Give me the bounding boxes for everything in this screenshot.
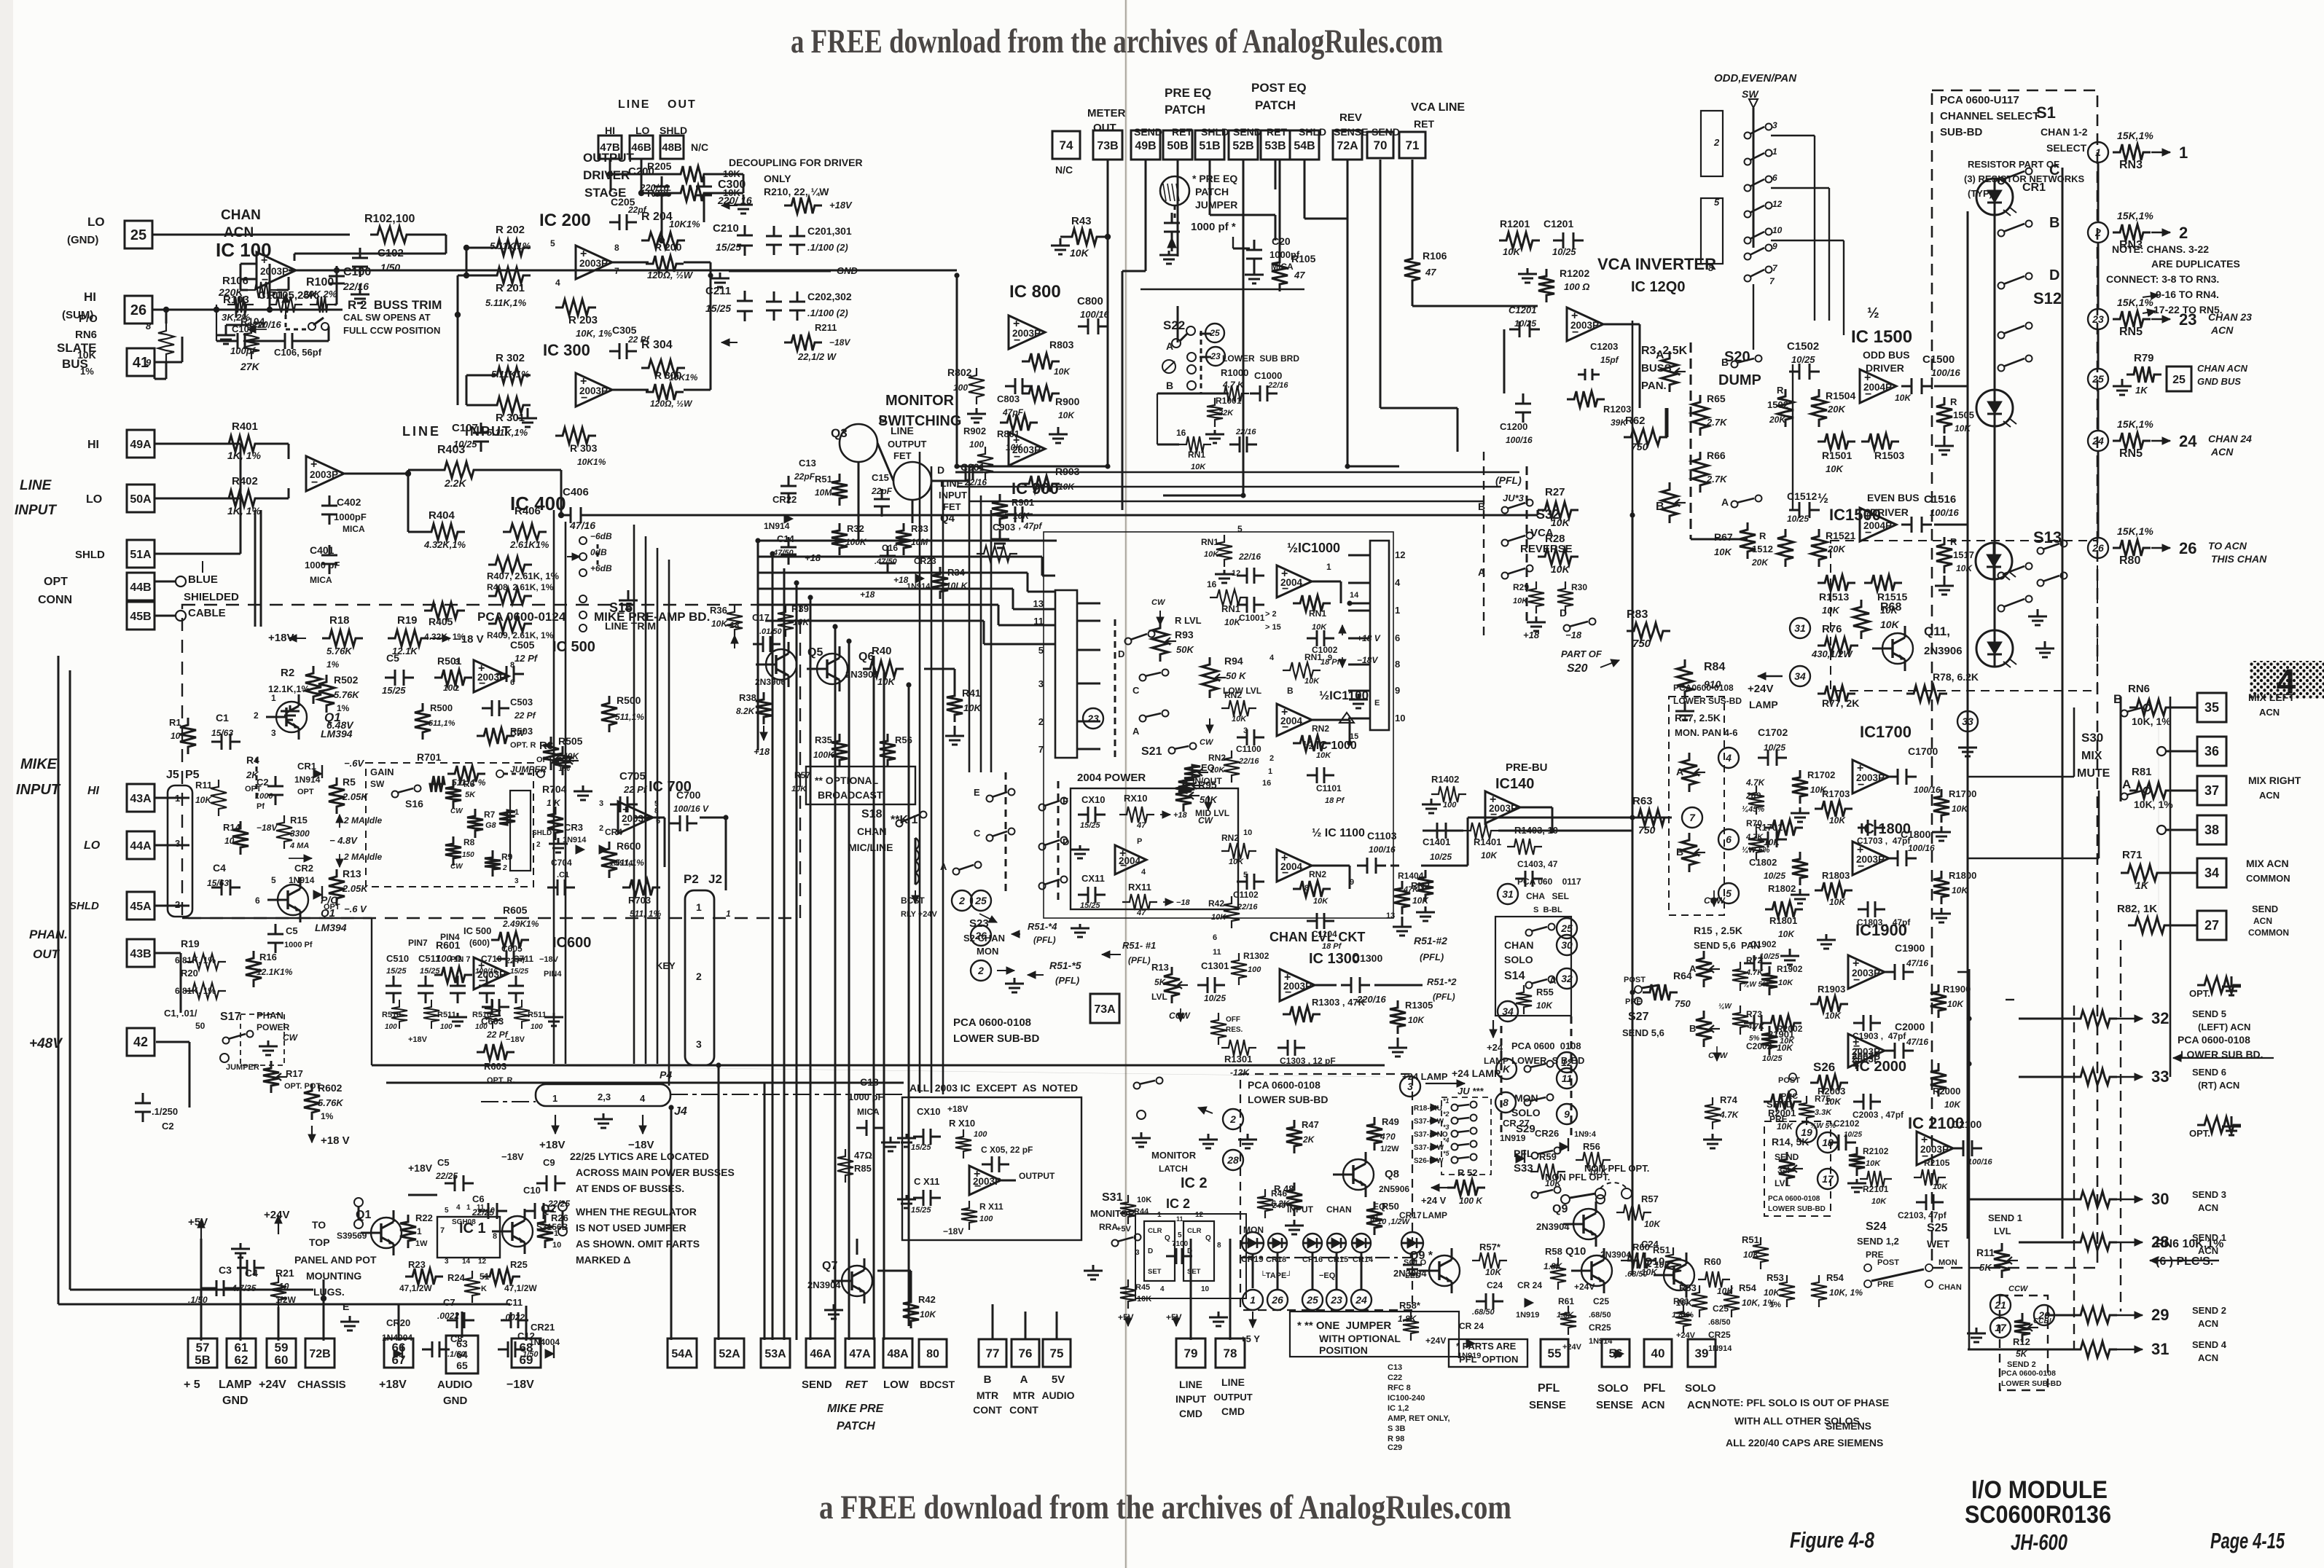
svg-text:2: 2: [455, 684, 459, 693]
svg-text:2003P: 2003P: [579, 258, 608, 269]
svg-text:22 Pf: 22 Pf: [623, 784, 648, 795]
svg-text:1N914: 1N914: [609, 859, 633, 868]
svg-text:CX10: CX10: [1081, 794, 1106, 805]
svg-text:+24 V: +24 V: [1421, 1195, 1447, 1206]
svg-text:10/25: 10/25: [1764, 742, 1785, 753]
svg-text:10K, 1%: 10K, 1%: [2132, 716, 2171, 727]
svg-text:C1101: C1101: [1316, 783, 1342, 793]
svg-text:*3: *3: [1443, 1124, 1449, 1131]
svg-text:CCW: CCW: [2008, 1285, 2029, 1293]
svg-text:R1501: R1501: [1822, 450, 1852, 461]
svg-text:MUTE: MUTE: [2077, 767, 2110, 780]
svg-text:Q11,: Q11,: [1924, 624, 1950, 638]
svg-text:SC0600R0136: SC0600R0136: [1965, 1501, 2111, 1529]
svg-text:C5: C5: [386, 652, 399, 664]
svg-text:R32: R32: [847, 523, 864, 534]
svg-text:10K: 10K: [1313, 897, 1329, 906]
svg-text:R1702: R1702: [1807, 769, 1835, 780]
svg-text:PART OF: PART OF: [1561, 648, 1603, 659]
svg-text:511, 1 %: 511, 1 %: [452, 777, 486, 788]
svg-text:1: 1: [2179, 144, 2188, 162]
svg-text:K: K: [1503, 1063, 1511, 1075]
svg-text:1512: 1512: [1752, 544, 1773, 554]
svg-text:10/25: 10/25: [1844, 1131, 1862, 1139]
svg-text:10/25: 10/25: [1759, 952, 1780, 961]
svg-text:16: 16: [1207, 579, 1217, 589]
svg-text:RX11: RX11: [1128, 882, 1151, 893]
svg-text:E: E: [974, 787, 980, 798]
svg-text:LAMP: LAMP: [1749, 699, 1778, 710]
svg-text:R405: R405: [429, 616, 453, 627]
svg-text:5K: 5K: [1979, 1262, 1992, 1273]
svg-text:D: D: [937, 464, 944, 476]
svg-text:1000 pf *: 1000 pf *: [1191, 221, 1236, 233]
svg-text:B: B: [1287, 686, 1294, 696]
svg-text:R85: R85: [854, 1163, 872, 1174]
svg-text:IC100-240: IC100-240: [1388, 1394, 1425, 1403]
svg-text:LM394: LM394: [321, 728, 353, 740]
svg-text:12: 12: [1195, 1211, 1204, 1219]
svg-text:R1503: R1503: [1874, 450, 1904, 461]
svg-text:SEND 3: SEND 3: [2192, 1189, 2226, 1200]
svg-text:10K: 10K: [1232, 715, 1247, 724]
svg-text:MONITOR: MONITOR: [1151, 1150, 1197, 1161]
svg-text:1: 1: [1250, 1294, 1256, 1306]
svg-text:10K: 10K: [1536, 1000, 1553, 1011]
svg-text:C210: C210: [713, 222, 739, 235]
svg-text:52A: 52A: [719, 1348, 740, 1360]
svg-text:54A: 54A: [671, 1348, 693, 1360]
svg-text:3: 3: [515, 877, 519, 885]
svg-text:RN1: RN1: [1188, 450, 1205, 460]
svg-text:A: A: [1689, 963, 1697, 974]
svg-text:S18: S18: [861, 808, 883, 820]
svg-text:100: 100: [1248, 965, 1261, 974]
svg-text:34: 34: [1794, 670, 1806, 682]
svg-text:C903: C903: [993, 522, 1015, 533]
svg-text:47,1/2W: 47,1/2W: [399, 1283, 432, 1293]
svg-text:+18V: +18V: [408, 1162, 433, 1174]
svg-text:* PARTS ARE: * PARTS ARE: [1456, 1341, 1517, 1352]
svg-text:J5: J5: [166, 769, 179, 781]
svg-text:4: 4: [555, 278, 560, 288]
svg-text:6: 6: [1772, 173, 1777, 183]
svg-text:43B: 43B: [130, 948, 151, 960]
svg-text:S14: S14: [1504, 970, 1525, 982]
svg-text:C711: C711: [513, 954, 533, 964]
svg-text:CABLE: CABLE: [188, 607, 226, 619]
svg-text:750: 750: [1631, 441, 1648, 452]
svg-text:10K: 10K: [1654, 1260, 1671, 1270]
svg-text:3: 3: [696, 1038, 702, 1050]
svg-text:GAIN: GAIN: [370, 767, 394, 777]
svg-text:10: 10: [171, 731, 181, 741]
svg-text:MON. PAN 4-6: MON. PAN 4-6: [1675, 727, 1737, 738]
svg-text:R78, 6.2K: R78, 6.2K: [1933, 671, 1979, 683]
svg-text:* ** ONE JUMPER: * ** ONE JUMPER: [1297, 1320, 1391, 1332]
svg-text:R511: R511: [528, 1011, 547, 1019]
svg-text:2N3906: 2N3906: [755, 677, 786, 687]
svg-text:10K: 10K: [1777, 1121, 1793, 1132]
svg-text:R27: R27: [1545, 486, 1565, 498]
svg-text:2N3904: 2N3904: [1536, 1221, 1570, 1232]
svg-text:2003P: 2003P: [1489, 803, 1517, 814]
svg-text:C1100: C1100: [1236, 744, 1261, 754]
svg-text:A: A: [1656, 349, 1664, 361]
svg-text:22/16: 22/16: [1235, 428, 1256, 436]
svg-text:R: R: [1759, 530, 1767, 541]
svg-text:IC 12Q0: IC 12Q0: [1631, 279, 1685, 295]
svg-text:1502: 1502: [1767, 399, 1788, 410]
svg-text:10/25: 10/25: [1764, 871, 1785, 881]
svg-text:4.32K,1%: 4.32K,1%: [423, 539, 466, 550]
svg-text:7: 7: [614, 266, 619, 276]
svg-text:CR 24: CR 24: [1459, 1321, 1484, 1331]
svg-text:K: K: [481, 1285, 487, 1293]
svg-text:100 K: 100 K: [1459, 1196, 1483, 1206]
svg-text:SHLD: SHLD: [1299, 126, 1326, 138]
svg-text:15/25: 15/25: [716, 241, 741, 253]
svg-text:R1802: R1802: [1768, 883, 1796, 894]
svg-text:HI: HI: [84, 290, 96, 304]
svg-text:5: 5: [550, 238, 555, 248]
svg-text:2: 2: [2094, 227, 2101, 238]
svg-text:PIN7: PIN7: [408, 938, 428, 948]
svg-text:22/16: 22/16: [1237, 903, 1258, 912]
svg-text:R105: R105: [1291, 253, 1316, 264]
svg-text:−18V: −18V: [943, 1226, 963, 1236]
svg-text:10/25: 10/25: [1552, 246, 1576, 257]
svg-text:POST EQ: POST EQ: [1251, 81, 1307, 95]
svg-text:J2: J2: [708, 872, 722, 886]
svg-text:10K: 10K: [77, 349, 96, 361]
svg-text:SEND: SEND: [1134, 126, 1162, 138]
svg-text:ARE DUPLICATES: ARE DUPLICATES: [2151, 258, 2240, 270]
svg-text:AT ENDS OF BUSSES.: AT ENDS OF BUSSES.: [576, 1183, 684, 1194]
svg-text:S12: S12: [2033, 289, 2062, 307]
svg-text:PIN 7: PIN 7: [450, 955, 471, 964]
svg-text:CR26: CR26: [1535, 1128, 1559, 1139]
svg-text:R36: R36: [710, 605, 727, 616]
svg-text:2003P: 2003P: [1012, 328, 1041, 339]
svg-text:IC 2: IC 2: [1166, 1196, 1190, 1211]
svg-text:C2000: C2000: [1895, 1021, 1925, 1032]
svg-text:10K: 10K: [1644, 1219, 1661, 1229]
svg-text:WITH ALL OTHER SOLOS: WITH ALL OTHER SOLOS: [1734, 1415, 1860, 1427]
svg-text:R57: R57: [1641, 1193, 1659, 1204]
svg-text:IC 1,2: IC 1,2: [1388, 1404, 1409, 1413]
svg-text:LINE: LINE: [891, 425, 914, 436]
svg-text:C15: C15: [872, 472, 889, 483]
svg-text:29: 29: [2151, 1306, 2169, 1324]
svg-text:C511: C511: [418, 953, 440, 964]
svg-text:R51: R51: [815, 474, 832, 485]
svg-text:PAN.: PAN.: [1641, 380, 1667, 392]
svg-text:10/25: 10/25: [1430, 852, 1452, 862]
svg-text:2K: 2K: [1302, 1134, 1315, 1145]
svg-text:A: A: [1166, 340, 1173, 352]
svg-text:10: 10: [1201, 1285, 1210, 1293]
svg-text:47/16: 47/16: [1906, 958, 1928, 968]
svg-text:2: 2: [1269, 754, 1274, 763]
svg-text:R55: R55: [1536, 987, 1554, 997]
svg-text:R9: R9: [501, 852, 513, 862]
svg-text:10K: 10K: [1947, 999, 1964, 1009]
svg-text:RN2: RN2: [1312, 724, 1329, 734]
svg-text:AUDIO: AUDIO: [1041, 1389, 1074, 1401]
svg-text:23: 23: [1330, 1294, 1342, 1306]
svg-text:JH-600: JH-600: [2011, 1529, 2067, 1555]
svg-text:C24: C24: [1487, 1280, 1503, 1290]
svg-text:R: R: [1950, 536, 1957, 547]
svg-text:22 Pf: 22 Pf: [514, 710, 536, 721]
svg-text:GND: GND: [443, 1395, 468, 1407]
svg-text:8: 8: [493, 1232, 497, 1241]
svg-text:1K: 1K: [2135, 385, 2148, 396]
svg-text:(PFL): (PFL): [1433, 992, 1455, 1002]
svg-text:4: 4: [1725, 752, 1732, 764]
svg-text:25: 25: [1306, 1294, 1318, 1306]
svg-text:R403: R403: [437, 444, 465, 456]
svg-text:R15 , 2.5K: R15 , 2.5K: [1694, 925, 1742, 936]
svg-text:C4: C4: [213, 862, 226, 874]
svg-text:ALL 220/40 CAPS ARE SIEMENS: ALL 220/40 CAPS ARE SIEMENS: [1726, 1437, 1883, 1449]
svg-text:> 15: > 15: [1265, 623, 1281, 632]
svg-text:ODD BUS: ODD BUS: [1863, 349, 1910, 361]
svg-text:1%: 1%: [326, 659, 340, 670]
svg-text:R60: R60: [1704, 1256, 1721, 1267]
svg-text:R900: R900: [1055, 396, 1080, 407]
svg-text:6: 6: [1213, 933, 1217, 942]
svg-text:S31: S31: [1102, 1191, 1123, 1204]
svg-text:5: 5: [1237, 524, 1243, 534]
svg-text:25: 25: [1560, 922, 1573, 934]
svg-text:C2: C2: [257, 777, 269, 788]
svg-text:10K: 10K: [1513, 597, 1528, 605]
svg-text:S20: S20: [1567, 662, 1588, 675]
svg-text:LOWER SUB BD.: LOWER SUB BD.: [2180, 1048, 2264, 1060]
svg-text:10K: 10K: [1933, 1183, 1948, 1191]
svg-text:C3: C3: [219, 1264, 232, 1276]
svg-text:70: 70: [1374, 138, 1388, 152]
svg-text:R23: R23: [408, 1259, 426, 1270]
svg-text:.1/50: .1/50: [520, 1350, 539, 1359]
svg-text:2004: 2004: [1119, 855, 1141, 866]
svg-text:10K: 10K: [1058, 410, 1075, 420]
svg-text:P5: P5: [185, 769, 200, 781]
svg-text:Page 4-15: Page 4-15: [2210, 1528, 2285, 1553]
svg-text:2003P: 2003P: [1920, 1144, 1949, 1155]
svg-text:CCB!: CCB!: [2033, 1317, 2052, 1325]
svg-text:R 303: R 303: [570, 442, 598, 454]
svg-text:C201,301: C201,301: [807, 225, 852, 237]
svg-text:R44: R44: [1134, 1207, 1149, 1216]
svg-text:POST: POST: [1877, 1258, 1899, 1267]
svg-text:MIKE PRE-AMP BD.: MIKE PRE-AMP BD.: [594, 610, 710, 624]
svg-text:2: 2: [254, 710, 259, 721]
svg-text:4.7K: 4.7K: [1745, 777, 1766, 788]
svg-text:C1902: C1902: [1750, 939, 1777, 949]
svg-text:2,3: 2,3: [598, 1091, 611, 1102]
svg-text:42: 42: [133, 1035, 148, 1049]
svg-text:CW: CW: [1151, 598, 1166, 607]
svg-text:Figure 4-8: Figure 4-8: [1790, 1527, 1875, 1553]
svg-text:CHAN: CHAN: [1326, 1204, 1352, 1215]
svg-text:10K: 10K: [1955, 423, 1971, 434]
svg-text:2 MA Idle: 2 MA Idle: [343, 852, 383, 862]
svg-text:MOUNTING: MOUNTING: [306, 1270, 361, 1282]
svg-text:R1404: R1404: [1398, 871, 1424, 881]
svg-text:C1000: C1000: [1254, 370, 1282, 381]
svg-text:C1502: C1502: [1787, 340, 1819, 353]
svg-text:100/16: 100/16: [1930, 507, 1960, 518]
svg-text:CR18: CR18: [1266, 1255, 1286, 1264]
svg-text:SET: SET: [1187, 1268, 1201, 1276]
svg-text:DUMP: DUMP: [1718, 372, 1761, 388]
svg-text:CMD: CMD: [1221, 1406, 1245, 1417]
svg-text:½ IC 1100: ½ IC 1100: [1312, 827, 1365, 839]
svg-text:15K,1%: 15K,1%: [2117, 210, 2153, 222]
svg-text:MICA: MICA: [310, 575, 332, 585]
svg-text:NOTE: CHANS. 3-22: NOTE: CHANS. 3-22: [2112, 243, 2209, 255]
svg-text:2004: 2004: [1280, 861, 1303, 872]
svg-text:65: 65: [456, 1360, 468, 1371]
svg-text:10K: 10K: [1137, 1196, 1151, 1204]
svg-text:E: E: [343, 1301, 349, 1312]
svg-text:31: 31: [2151, 1340, 2169, 1358]
svg-text:10K,: 10K,: [1676, 1298, 1694, 1308]
svg-text:R51- #1: R51- #1: [1122, 940, 1156, 951]
svg-text:SEND: SEND: [2252, 903, 2278, 914]
svg-text:IS NOT USED JUMPER: IS NOT USED JUMPER: [576, 1222, 686, 1234]
svg-text:R 201: R 201: [496, 282, 525, 294]
svg-text:R14, 5K: R14, 5K: [1772, 1136, 1809, 1148]
svg-text:S33: S33: [1514, 1162, 1533, 1175]
svg-text:10K: 10K: [1211, 913, 1226, 922]
svg-text:INPUT: INPUT: [465, 424, 512, 439]
svg-text:20K 2%: 20K 2%: [302, 289, 337, 299]
svg-text:FET: FET: [893, 450, 912, 461]
svg-text:RES.: RES.: [1226, 1026, 1243, 1034]
svg-text:47pF: 47pF: [1002, 407, 1024, 418]
svg-text:2003P: 2003P: [973, 1176, 1001, 1187]
svg-text:R3, 2.5K: R3, 2.5K: [1641, 345, 1688, 357]
svg-text:R 302: R 302: [496, 352, 525, 364]
svg-text:22pF: 22pF: [794, 471, 815, 482]
svg-text:73A: 73A: [1094, 1003, 1116, 1016]
svg-text:C6: C6: [472, 1193, 485, 1204]
svg-text:45B: 45B: [130, 611, 151, 623]
svg-text:RN2: RN2: [1208, 753, 1226, 763]
svg-text:24: 24: [1355, 1294, 1367, 1306]
svg-text:45A: 45A: [130, 901, 152, 913]
svg-text:C1800: C1800: [1901, 828, 1930, 840]
svg-text:2 MA Idle: 2 MA Idle: [343, 815, 383, 826]
svg-text:(PFL): (PFL): [1495, 474, 1522, 486]
svg-text:WET: WET: [1927, 1238, 1950, 1250]
svg-text:10K: 10K: [1204, 550, 1219, 559]
svg-text:5: 5: [271, 875, 276, 885]
svg-text:17: 17: [1822, 1173, 1834, 1185]
svg-text:B: B: [984, 1373, 992, 1386]
svg-text:4: 4: [456, 1204, 461, 1212]
svg-text:C1700: C1700: [1908, 745, 1938, 757]
svg-text:+5 Y: +5 Y: [1240, 1333, 1260, 1344]
svg-text:511,1%: 511,1%: [615, 712, 644, 722]
svg-text:C710: C710: [481, 954, 502, 964]
svg-text:−18V: −18V: [501, 1151, 524, 1162]
svg-text:LINE: LINE: [1221, 1376, 1245, 1388]
svg-text:10: 10: [552, 1241, 561, 1250]
svg-text:E: E: [1374, 699, 1380, 707]
svg-text:R210, 22, ¼W: R210, 22, ¼W: [764, 186, 829, 197]
svg-text:R404: R404: [429, 509, 455, 522]
svg-text:C25: C25: [1593, 1296, 1609, 1306]
svg-text:R1800: R1800: [1949, 870, 1976, 881]
svg-text:R43: R43: [1071, 215, 1092, 227]
svg-text:C605: C605: [501, 944, 523, 954]
svg-text:R701: R701: [417, 751, 442, 763]
svg-text:D: D: [1063, 836, 1069, 847]
svg-text:R1902: R1902: [1777, 964, 1803, 974]
svg-text:1: 1: [466, 1204, 471, 1212]
svg-text:(3) RESISTOR NETWORKS: (3) RESISTOR NETWORKS: [1964, 173, 2084, 184]
svg-text:−18V: −18V: [628, 1139, 654, 1151]
svg-text:10K: 10K: [1743, 1250, 1760, 1260]
svg-text:1N914: 1N914: [764, 521, 790, 531]
svg-text:R3: R3: [539, 740, 553, 752]
svg-text:R35: R35: [815, 734, 832, 745]
svg-text:PCA 0600-0108: PCA 0600-0108: [2178, 1034, 2250, 1046]
svg-text:47: 47: [1136, 909, 1146, 917]
svg-text:49B: 49B: [1135, 140, 1156, 152]
svg-text:10K: 10K: [1210, 766, 1225, 775]
svg-text:10K: 10K: [1070, 247, 1089, 259]
svg-text:22 Pf: 22 Pf: [627, 334, 650, 345]
svg-text:17: 17: [1995, 1322, 2007, 1333]
svg-text:1N919: 1N919: [1458, 1352, 1481, 1360]
svg-text:4?0: 4?0: [1380, 1132, 1396, 1142]
svg-text:8: 8: [1304, 884, 1309, 893]
svg-text:CX10: CX10: [917, 1106, 941, 1117]
svg-text:SENSE: SENSE: [1529, 1399, 1566, 1411]
svg-text:C1200: C1200: [1500, 421, 1527, 432]
svg-text:C5: C5: [286, 925, 298, 936]
svg-text:2003P: 2003P: [1570, 320, 1599, 331]
svg-text:R80: R80: [2119, 554, 2140, 567]
svg-text:R81: R81: [2132, 766, 2152, 778]
svg-text:(PFL): (PFL): [1128, 955, 1151, 965]
svg-text:R401: R401: [232, 420, 258, 433]
svg-text:30: 30: [1561, 939, 1573, 951]
svg-text:10K: 10K: [1829, 815, 1846, 826]
svg-text:R13: R13: [1151, 962, 1169, 973]
svg-text:IC 500: IC 500: [463, 925, 491, 936]
svg-text:R2: R2: [281, 667, 294, 679]
svg-text:C9: C9: [543, 1157, 555, 1168]
svg-text:10: 10: [1395, 713, 1405, 724]
svg-text:47/16: 47/16: [569, 520, 595, 531]
svg-text:-12K: -12K: [1230, 1067, 1250, 1078]
svg-text:B: B: [1721, 356, 1729, 368]
svg-text:75: 75: [1050, 1346, 1064, 1360]
svg-text:IC1700: IC1700: [1860, 723, 1912, 741]
svg-text:30: 30: [2151, 1190, 2169, 1208]
svg-text:R51-#2: R51-#2: [1414, 935, 1447, 946]
svg-text:A: A: [1676, 766, 1683, 777]
svg-text:LO: LO: [84, 839, 101, 852]
svg-text:CW: CW: [1200, 738, 1214, 747]
